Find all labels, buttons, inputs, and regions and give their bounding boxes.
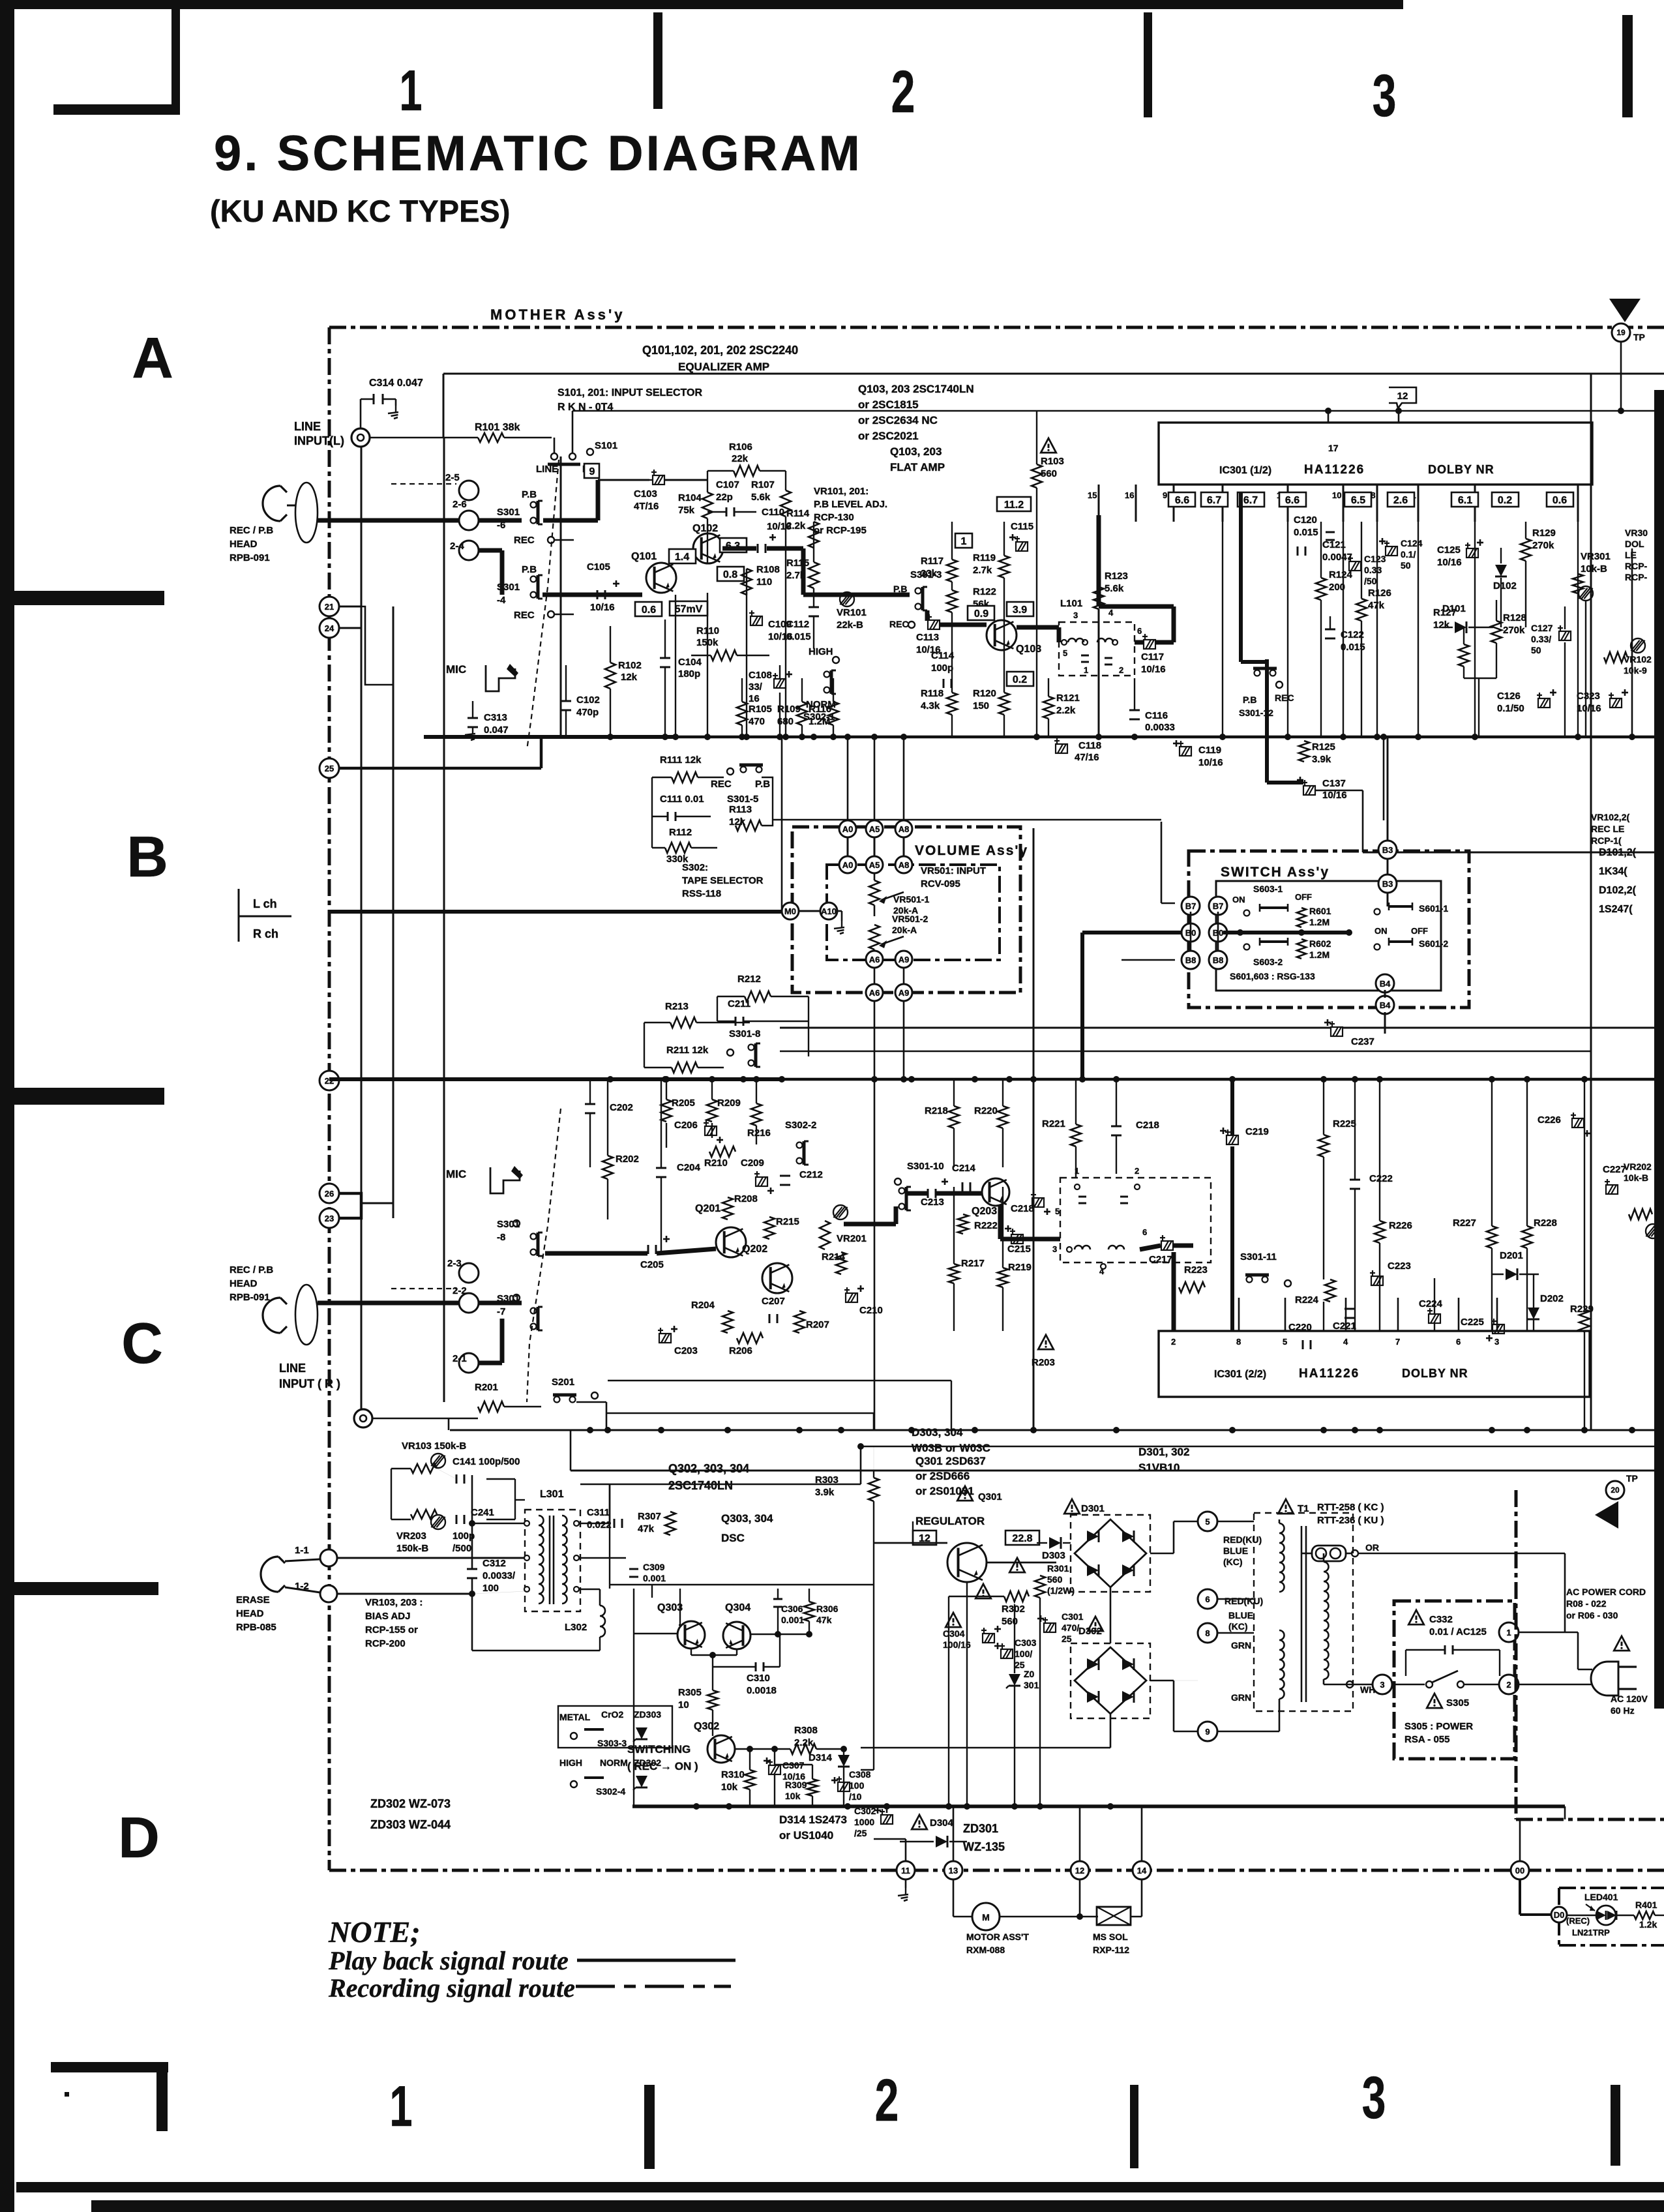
svg-text:C223: C223 <box>1388 1261 1411 1272</box>
svg-text:180p: 180p <box>678 668 700 680</box>
flat amp vertical wires <box>951 582 953 590</box>
capacitor C302 <box>880 1809 893 1824</box>
svg-text:LINE: LINE <box>294 420 321 433</box>
wire x875 link <box>570 1430 572 1471</box>
svg-text:21: 21 <box>325 602 334 612</box>
svg-text:11.2: 11.2 <box>1004 500 1024 511</box>
switch S301-12 route thick <box>1239 492 1243 662</box>
resistor R601 <box>1297 908 1306 927</box>
mother board top dash-dot border <box>329 326 1664 329</box>
transistor Q103 <box>987 620 1017 650</box>
wire IC supply <box>1398 411 1400 423</box>
svg-text:0.9: 0.9 <box>974 608 988 620</box>
resistor R213 <box>670 1017 696 1028</box>
zener ZD302 <box>636 1776 647 1787</box>
svg-text:R ch: R ch <box>253 927 278 940</box>
voltage box 0.9 <box>968 606 994 620</box>
svg-text:C209: C209 <box>741 1158 764 1169</box>
dashed gang line R <box>527 1109 561 1402</box>
svg-text:VR201: VR201 <box>837 1233 867 1244</box>
svg-text:C103: C103 <box>634 488 657 500</box>
ground at C314 <box>395 406 396 412</box>
svg-text:12: 12 <box>1397 391 1408 402</box>
svg-text:1K34(: 1K34( <box>1599 866 1627 877</box>
svg-text:10k: 10k <box>785 1791 801 1801</box>
svg-text:(KU AND KC TYPES): (KU AND KC TYPES) <box>210 194 510 228</box>
test point 20 terminal <box>1606 1481 1624 1499</box>
svg-text:C118: C118 <box>1078 740 1101 751</box>
svg-text:R223: R223 <box>1184 1264 1208 1276</box>
svg-text:6: 6 <box>1456 1337 1461 1347</box>
IC301 pin17 stub <box>1328 411 1330 423</box>
right dash-dot border power <box>1515 1490 1518 1819</box>
svg-text:RPB-091: RPB-091 <box>230 1292 270 1303</box>
terminal 3 <box>1373 1675 1392 1694</box>
terminal A10 <box>820 903 837 919</box>
svg-text:RCP-: RCP- <box>1625 561 1648 571</box>
svg-text:6: 6 <box>1142 1227 1147 1237</box>
resistor R111 <box>672 772 698 783</box>
wire Q102 collector <box>785 471 786 490</box>
wire across y1612 <box>780 1051 1591 1052</box>
resistor R218 <box>949 1106 959 1128</box>
svg-text:11: 11 <box>901 1866 910 1876</box>
svg-text:B3: B3 <box>1382 845 1393 855</box>
svg-text:P.B LEVEL ADJ.: P.B LEVEL ADJ. <box>814 499 887 510</box>
svg-text:R205: R205 <box>672 1098 695 1109</box>
svg-text:0.022: 0.022 <box>587 1519 612 1531</box>
resistor R128 <box>1491 621 1502 643</box>
svg-text:C303: C303 <box>1015 1637 1037 1648</box>
bridge rectifier D302 <box>1071 1643 1150 1718</box>
svg-text:S301-12: S301-12 <box>1239 708 1273 718</box>
svg-text:A9: A9 <box>899 955 910 964</box>
svg-text:20k-A: 20k-A <box>892 925 917 935</box>
resistor R229 <box>1579 1309 1590 1332</box>
svg-text:16: 16 <box>1125 490 1134 500</box>
resistor R209 <box>707 1099 717 1122</box>
VOLUME Ass'y dash-dot box <box>792 827 1020 993</box>
capacitor C202 <box>585 1103 595 1105</box>
svg-text:R227: R227 <box>1453 1218 1476 1229</box>
wire y630 segment <box>1034 410 1664 412</box>
terminal B4 bottom <box>1376 996 1394 1014</box>
svg-text:R117: R117 <box>921 556 943 567</box>
svg-text:S301-11: S301-11 <box>1240 1251 1277 1263</box>
switch S301-10 <box>899 1188 905 1194</box>
terminal A9 bottom <box>895 984 912 1001</box>
svg-text:R105: R105 <box>749 704 772 715</box>
svg-text:C312: C312 <box>483 1558 506 1569</box>
svg-text:9: 9 <box>589 466 595 477</box>
svg-text:R225: R225 <box>1333 1118 1356 1129</box>
svg-text:C124: C124 <box>1401 538 1423 548</box>
svg-text:(REC): (REC) <box>1566 1916 1590 1926</box>
svg-text:/500: /500 <box>453 1543 471 1554</box>
svg-text:5.6k: 5.6k <box>1105 583 1124 594</box>
svg-text:D202: D202 <box>1540 1293 1564 1304</box>
svg-text:W03B or W03C: W03B or W03C <box>912 1442 990 1454</box>
svg-text:RTT-236 ( KU ): RTT-236 ( KU ) <box>1317 1515 1384 1526</box>
svg-text:C302: C302 <box>854 1806 876 1816</box>
svg-text:C207: C207 <box>762 1296 785 1307</box>
wires IC top pins verticals <box>1222 522 1223 737</box>
switch S301-11 <box>1247 1277 1253 1283</box>
transistor Q304 <box>723 1622 750 1649</box>
svg-text:33/: 33/ <box>749 681 763 693</box>
resistor R125 <box>1299 741 1309 762</box>
svg-text:4: 4 <box>1343 1337 1348 1347</box>
svg-text:C114: C114 <box>931 650 955 661</box>
voltage box 22.8 <box>1005 1531 1039 1545</box>
voltage box 2.6 pin10 <box>1388 492 1414 507</box>
power region top border wire <box>571 1470 1664 1472</box>
svg-text:MOTHER Ass'y: MOTHER Ass'y <box>490 306 625 323</box>
svg-text:10/16: 10/16 <box>1198 757 1223 768</box>
svg-text:3: 3 <box>1380 1680 1384 1690</box>
svg-text:R111 12k: R111 12k <box>660 755 702 766</box>
transistor Q303 <box>677 1621 705 1649</box>
svg-text:ZD303: ZD303 <box>634 1709 661 1720</box>
resistor R211 <box>672 1062 698 1073</box>
erase head wires <box>285 1559 320 1561</box>
terminal A0 inner <box>839 856 856 873</box>
row B junction dots <box>663 1076 670 1083</box>
svg-text:C126: C126 <box>1497 691 1521 702</box>
svg-text:0.33/: 0.33/ <box>1531 634 1551 644</box>
svg-text:RCV-095: RCV-095 <box>921 878 960 889</box>
svg-text:R211 12k: R211 12k <box>666 1045 709 1056</box>
svg-text:C122: C122 <box>1341 629 1364 640</box>
fuse link <box>1316 1548 1326 1559</box>
svg-text:Q302: Q302 <box>694 1721 719 1732</box>
svg-text:R228: R228 <box>1534 1218 1557 1229</box>
terminal A0 top <box>839 820 856 837</box>
capacitor C310 <box>755 1662 757 1671</box>
bridge wires <box>1150 1553 1174 1555</box>
svg-text:100p: 100p <box>931 663 953 674</box>
switch S301-12 <box>1255 670 1260 676</box>
transistor Q102 <box>693 533 723 563</box>
svg-text:2-5: 2-5 <box>445 472 460 483</box>
boxed 12 regulator <box>913 1531 936 1545</box>
thick wire S301-6 up route <box>543 518 598 523</box>
svg-text:REC / P.B: REC / P.B <box>230 525 273 536</box>
svg-text:D102: D102 <box>1493 580 1517 591</box>
svg-text:R222: R222 <box>974 1220 998 1231</box>
resistor R206 <box>737 1333 763 1343</box>
boxed 12 pointer top <box>1389 387 1416 408</box>
switch assy inner box <box>1216 881 1441 991</box>
voltage box 6.3 <box>720 538 747 552</box>
capacitor C215 <box>1010 1229 1023 1244</box>
svg-text:A5: A5 <box>869 860 880 870</box>
transistor Q201 <box>716 1227 746 1257</box>
svg-text:VR102: VR102 <box>1624 654 1652 665</box>
svg-text:C310: C310 <box>747 1673 770 1684</box>
terminal B0 outer <box>1181 923 1200 942</box>
svg-text:A0: A0 <box>842 824 854 834</box>
svg-text:Q103, 203 2SC1740LN: Q103, 203 2SC1740LN <box>858 383 974 395</box>
warning D304 <box>912 1815 927 1829</box>
svg-text:1.2k: 1.2k <box>1639 1919 1657 1930</box>
svg-text:D303: D303 <box>1042 1550 1065 1561</box>
resistor R301 <box>1035 1576 1045 1598</box>
connector DO <box>1551 1907 1567 1922</box>
connector 12 <box>1071 1861 1089 1879</box>
svg-text:100: 100 <box>483 1583 499 1594</box>
resistor R116 <box>828 702 839 725</box>
wire x1320 link <box>860 1446 862 1484</box>
resistor R118 <box>947 693 957 715</box>
svg-text:Q101,102, 201, 202 2SC2240: Q101,102, 201, 202 2SC2240 <box>642 344 798 357</box>
terminal 9 <box>1198 1722 1217 1741</box>
svg-text:Q202: Q202 <box>742 1244 767 1255</box>
svg-text:A6: A6 <box>869 988 880 998</box>
resistor R103 <box>1032 464 1042 488</box>
svg-text:REC: REC <box>1275 693 1294 703</box>
svg-text:LINE: LINE <box>536 464 558 475</box>
svg-text:22k-B: 22k-B <box>837 620 863 631</box>
svg-text:R123: R123 <box>1105 571 1128 582</box>
dashed selector gang line <box>527 460 559 750</box>
capacitor C307 <box>767 1759 780 1774</box>
svg-text:6.5: 6.5 <box>1351 495 1365 506</box>
svg-text:C212: C212 <box>799 1169 823 1180</box>
top frame wire <box>443 373 1664 375</box>
resistor R101 <box>478 433 504 442</box>
svg-text:Q301: Q301 <box>978 1491 1002 1502</box>
thick wires head R <box>318 1301 459 1306</box>
resistor R220 <box>998 1106 1008 1128</box>
svg-text:R218: R218 <box>925 1105 948 1116</box>
svg-text:INPUT ( R ): INPUT ( R ) <box>279 1377 340 1390</box>
svg-text:C214: C214 <box>952 1163 976 1174</box>
svg-text:B: B <box>126 824 168 889</box>
wire vertical x554 input column <box>361 438 363 1411</box>
svg-text:INPUT(L): INPUT(L) <box>294 434 344 447</box>
svg-text:HIGH: HIGH <box>809 646 833 657</box>
svg-text:22p: 22p <box>716 492 733 503</box>
svg-text:BIAS ADJ: BIAS ADJ <box>365 1611 410 1622</box>
test point 19 wire <box>1620 342 1622 411</box>
wire vertical right power <box>1564 1806 1566 1819</box>
svg-text:A6: A6 <box>869 955 880 964</box>
mother board bottom dash-dot border <box>329 1869 1664 1872</box>
capacitor C127 <box>1558 625 1571 640</box>
capacitor C203 <box>658 1328 671 1343</box>
svg-text:0.0033: 0.0033 <box>1145 722 1175 733</box>
switch S302-4 <box>571 1781 577 1787</box>
svg-text:DOLBY NR: DOLBY NR <box>1428 463 1494 476</box>
resistor R115 <box>809 562 819 588</box>
svg-text:GRN: GRN <box>1231 1640 1251 1651</box>
svg-text:C311: C311 <box>587 1507 610 1518</box>
svg-text:CrO2: CrO2 <box>601 1709 623 1720</box>
svg-text:6.7: 6.7 <box>1207 495 1221 506</box>
svg-text:L101: L101 <box>1060 598 1082 609</box>
wire 00 to DO <box>1519 1879 1521 1915</box>
resistor R112 <box>665 843 691 853</box>
svg-text:C120: C120 <box>1294 515 1317 526</box>
svg-text:R125: R125 <box>1312 741 1335 753</box>
svg-text:C108: C108 <box>749 670 772 681</box>
svg-text:C215: C215 <box>1007 1244 1031 1255</box>
svg-text:2.2k: 2.2k <box>1056 705 1076 716</box>
L301 wires <box>579 1523 610 1525</box>
ground at C313 <box>472 727 473 734</box>
warning C304 <box>945 1613 960 1627</box>
svg-text:Q201: Q201 <box>695 1203 721 1214</box>
resistor R305 <box>707 1690 718 1710</box>
pot VR201 <box>833 1205 848 1219</box>
boxed 1 <box>955 533 972 548</box>
terminal A9 inner <box>895 951 912 968</box>
capacitor C105 <box>597 590 599 599</box>
resistor R214 <box>836 1252 846 1274</box>
svg-text:HEAD: HEAD <box>236 1608 264 1619</box>
svg-text:M0: M0 <box>784 906 796 916</box>
wire row C y2167 <box>606 1412 874 1414</box>
capacitor C304 <box>981 1628 994 1643</box>
rec/pb head L symbol <box>263 486 287 521</box>
svg-text:S301-10: S301-10 <box>907 1161 944 1172</box>
wire across y1576 <box>780 1027 1330 1029</box>
svg-text:Q203: Q203 <box>972 1206 997 1217</box>
pot VR202 resistor <box>1629 1209 1652 1219</box>
capacitor C227 <box>1605 1179 1618 1194</box>
switch S601-1 <box>1374 909 1380 915</box>
svg-text:TP: TP <box>1626 1473 1638 1484</box>
switch S603-1 <box>1244 910 1250 916</box>
svg-text:FLAT AMP: FLAT AMP <box>890 461 945 473</box>
svg-text:RED(KU): RED(KU) <box>1223 1534 1262 1545</box>
capacitor C301 <box>1043 1617 1056 1632</box>
svg-text:M: M <box>982 1912 990 1922</box>
line input L jack <box>351 428 370 447</box>
left margin dash C-D <box>14 1582 158 1595</box>
diode D314 <box>838 1755 850 1767</box>
terminal B0 inner <box>1209 923 1227 942</box>
svg-text:C202: C202 <box>610 1102 633 1113</box>
svg-text:5: 5 <box>1283 1337 1287 1347</box>
svg-text:R309: R309 <box>785 1780 807 1790</box>
svg-text:D: D <box>118 1805 160 1870</box>
voltage box 0.8 <box>717 567 744 581</box>
svg-text:14: 14 <box>1137 1866 1147 1876</box>
svg-text:MIC: MIC <box>446 663 466 676</box>
svg-text:C111 0.01: C111 0.01 <box>660 794 704 805</box>
thick wire row B feed <box>1082 931 1181 934</box>
svg-text:VR501-1: VR501-1 <box>893 894 929 904</box>
wire power top <box>861 1446 1664 1448</box>
svg-text:IC301 (2/2): IC301 (2/2) <box>1214 1369 1266 1380</box>
svg-text:C116: C116 <box>1145 710 1168 721</box>
svg-text:560: 560 <box>1002 1616 1018 1627</box>
svg-text:10k-B: 10k-B <box>1624 1173 1648 1183</box>
volume wires <box>847 837 849 856</box>
wire vertical x603 column <box>393 606 394 1218</box>
svg-text:R122: R122 <box>973 586 996 597</box>
svg-text:10k-B: 10k-B <box>1581 563 1607 575</box>
svg-text:-4: -4 <box>497 595 506 606</box>
svg-text:VR501-2: VR501-2 <box>892 914 928 924</box>
svg-text:A: A <box>132 325 173 390</box>
warning R302 <box>975 1584 990 1598</box>
wire C314 to line input <box>360 399 362 428</box>
svg-text:1: 1 <box>399 59 422 123</box>
svg-text:10/16: 10/16 <box>1141 664 1166 675</box>
svg-text:S603-1: S603-1 <box>1253 884 1283 894</box>
resistor R121 <box>1043 696 1054 719</box>
svg-text:17: 17 <box>1328 443 1339 453</box>
svg-text:1.2M: 1.2M <box>809 716 830 727</box>
svg-text:S305 : POWER: S305 : POWER <box>1404 1721 1473 1732</box>
voltage box 57mV <box>670 601 707 616</box>
svg-text:A5: A5 <box>869 824 880 834</box>
svg-text:3: 3 <box>1494 1337 1499 1347</box>
terminal B8 outer <box>1181 951 1200 969</box>
capacitor C213 <box>927 1189 929 1198</box>
svg-text:or 2SC2634 NC: or 2SC2634 NC <box>858 414 938 426</box>
svg-text:R101 38k: R101 38k <box>475 422 520 433</box>
svg-text:R114: R114 <box>786 508 810 519</box>
svg-text:RCP-200: RCP-200 <box>365 1638 406 1649</box>
row A junction dots <box>607 734 614 740</box>
AC plug <box>1591 1662 1618 1696</box>
resistor R109 <box>797 702 807 725</box>
capacitor C224 <box>1427 1308 1440 1323</box>
erase head symbol <box>261 1557 285 1592</box>
thick wire head to S301-6 <box>287 505 296 507</box>
resistor R119 <box>999 556 1009 578</box>
svg-text:22k: 22k <box>732 453 749 464</box>
power switch dash-dot box <box>1394 1601 1515 1759</box>
connector 21 <box>319 597 339 616</box>
switch S301-8 <box>749 1045 754 1051</box>
svg-text:1: 1 <box>389 2075 412 2139</box>
svg-text:6.1: 6.1 <box>1458 495 1472 506</box>
switch S603-2 <box>1244 944 1250 950</box>
wire B7 feed from R113 area <box>773 819 1161 821</box>
bus B thick overlay <box>329 1077 782 1081</box>
connector 11 <box>897 1861 915 1879</box>
svg-text:C323: C323 <box>1577 691 1600 702</box>
wires osc mid <box>633 1589 634 1806</box>
voltage box 0.2 pin14 <box>1492 492 1519 507</box>
wire right area y1307 <box>1363 852 1664 854</box>
svg-text:or 2SC1815: or 2SC1815 <box>858 398 919 411</box>
svg-text:Recording signal route: Recording signal route <box>328 1973 575 2003</box>
svg-text:C123: C123 <box>1364 554 1386 564</box>
svg-text:C210: C210 <box>859 1305 883 1316</box>
svg-text:L302: L302 <box>565 1622 587 1633</box>
wire vertical x724 bias <box>471 1475 473 1569</box>
row A ground bus <box>424 736 1664 739</box>
capacitor C112 <box>809 606 819 608</box>
svg-text:2: 2 <box>1135 1166 1139 1176</box>
svg-text:C304: C304 <box>943 1628 965 1639</box>
wires T1 primary <box>1302 1553 1312 1555</box>
wire vertical x2503 VR301 <box>1631 548 1633 737</box>
pot VR103 <box>411 1464 437 1473</box>
svg-text:or 2SC2021: or 2SC2021 <box>858 430 919 442</box>
svg-text:or 2SD666: or 2SD666 <box>915 1470 970 1482</box>
svg-text:ON: ON <box>1232 895 1245 904</box>
power bus junction dots <box>693 1803 700 1810</box>
zener ZD301 symbol <box>1009 1674 1020 1686</box>
svg-text:0.1/: 0.1/ <box>1401 549 1416 560</box>
